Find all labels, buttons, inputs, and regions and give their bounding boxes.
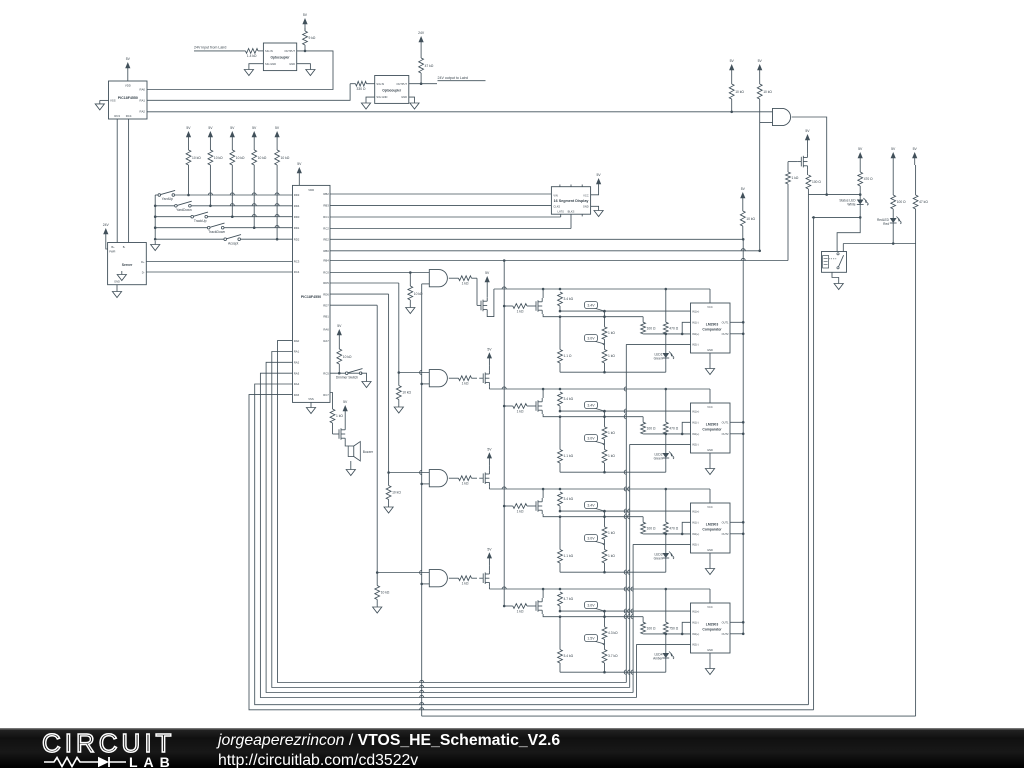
resistor R4 47 kOhm pull-up to 24V <box>418 31 434 83</box>
svg-text:VCC: VCC <box>707 405 713 409</box>
resistor R8 10 kOhm pull-up on RA2 line <box>729 59 744 113</box>
svg-text:GND: GND <box>707 548 713 552</box>
svg-text:LM2903: LM2903 <box>706 523 719 527</box>
comparator U7 LM2903 <box>691 403 731 453</box>
svg-text:Accept: Accept <box>228 241 238 245</box>
power 5V arrow for Q6 <box>805 129 810 153</box>
resistor R10 1 kOhm gate resistor <box>786 162 799 261</box>
resistor divider low block 2 <box>602 439 615 472</box>
power 5V arrow for Q4 <box>487 547 492 570</box>
wire bus riser to block 1 IN2- <box>624 344 626 682</box>
ground for comparator block 1 <box>705 353 714 375</box>
svg-text:3.4 kΩ: 3.4 kΩ <box>564 297 574 301</box>
CircuitLab logo <box>42 732 175 754</box>
resistor 1 kOhm input block 3 <box>513 504 532 514</box>
svg-text:IN2(-): IN2(-) <box>692 643 699 647</box>
resistor divider mid block 4 <box>602 611 618 639</box>
svg-text:330 Ω: 330 Ω <box>357 87 366 91</box>
svg-text:10 kΩ: 10 kΩ <box>402 391 411 395</box>
resistor 1 kOhm input block 4 <box>513 604 532 614</box>
svg-text:SIG IN: SIG IN <box>265 49 273 53</box>
wire block 4 top rail <box>489 587 710 603</box>
svg-text:3.4V: 3.4V <box>587 503 595 507</box>
wire opto U3 output to U1 RA0 <box>147 50 333 90</box>
LED block 4 <box>653 634 674 672</box>
resistor 1 kOhm channel 3 <box>449 476 477 486</box>
wire U1 RC4 to Server <box>128 119 130 243</box>
ground for comparator block 3 <box>705 553 714 575</box>
wire Server D+ to U2 RC3 <box>146 261 292 263</box>
svg-text:1 kΩ: 1 kΩ <box>608 431 615 435</box>
svg-text:5V: 5V <box>297 162 302 166</box>
svg-text:1 kΩ: 1 kΩ <box>608 454 615 458</box>
LED block 2 <box>654 434 675 472</box>
svg-text:CLKS: CLKS <box>553 205 560 209</box>
wire Q1 source to block rail <box>487 289 494 317</box>
svg-text:5V: 5V <box>252 126 257 130</box>
wire U2 pin riser to AND gate 3 input A <box>330 294 429 474</box>
svg-text:GND: GND <box>707 448 713 452</box>
wire block 4 IN2- row <box>637 643 691 645</box>
svg-text:10 kΩ: 10 kΩ <box>258 156 267 160</box>
svg-text:VCC: VCC <box>707 605 713 609</box>
ground for display GND <box>591 206 604 216</box>
wire block 4 input MOSFET connections <box>542 588 559 617</box>
node label 24V input from Laird <box>194 46 246 51</box>
ground for switch common rail <box>151 195 160 251</box>
svg-text:B+: B+ <box>111 245 115 249</box>
svg-text:Buzzer: Buzzer <box>363 450 374 454</box>
resistor R1 1.4 kOhm <box>246 49 264 59</box>
svg-text:RB2: RB2 <box>323 192 329 196</box>
AND gate driver channel 4 <box>429 570 447 587</box>
svg-text:1.1 Ω: 1.1 Ω <box>564 354 572 358</box>
switch SW6 Dimmer Switch <box>330 369 371 388</box>
svg-text:RD2: RD2 <box>294 237 300 241</box>
svg-text:47 kΩ: 47 kΩ <box>425 64 434 68</box>
svg-text:10 kΩ: 10 kΩ <box>192 156 201 160</box>
resistor shunt block 4 <box>558 617 574 673</box>
wire bus line 7 from common vertical <box>422 715 916 717</box>
wire block 2 node B <box>558 415 643 422</box>
wire bus riser to block 4 IN2- <box>636 644 638 697</box>
svg-text:RC3: RC3 <box>114 114 120 118</box>
wire U2 RC2 to display BLKS <box>330 214 571 228</box>
svg-text:IN2(-): IN2(-) <box>692 543 699 547</box>
resistor R11 100 Ohm <box>806 170 821 195</box>
svg-text:10 kΩ: 10 kΩ <box>281 156 290 160</box>
svg-text:RA6: RA6 <box>323 328 329 332</box>
wire comparator block 3 outputs <box>730 521 745 535</box>
svg-text:RB3: RB3 <box>323 204 329 208</box>
svg-text:OUT1: OUT1 <box>722 620 729 624</box>
wire comparator block 2 input row <box>504 405 513 407</box>
wire U2 RC7 to buzzer driver <box>330 393 333 410</box>
svg-text:RA4: RA4 <box>294 382 300 386</box>
svg-text:1.1 kΩ: 1.1 kΩ <box>564 554 574 558</box>
wire switch row Accept to U2 <box>154 238 225 241</box>
svg-text:TrackDown: TrackDown <box>208 230 225 234</box>
svg-text:10 kΩ: 10 kΩ <box>381 591 390 595</box>
transistor NMOS input block 2 <box>532 405 536 407</box>
svg-text:1 kΩ: 1 kΩ <box>608 354 615 358</box>
resistor 10 kOhm pulldown gate2 <box>394 373 411 414</box>
svg-text:4.3 kΩ: 4.3 kΩ <box>608 631 618 635</box>
svg-text:GND: GND <box>401 95 407 99</box>
svg-text:IN2(-): IN2(-) <box>692 343 699 347</box>
svg-text:470 Ω: 470 Ω <box>669 527 678 531</box>
svg-text:5V: 5V <box>487 547 492 551</box>
wire U2 RB0 to AND gate input <box>330 121 761 253</box>
svg-text:1 kΩ: 1 kΩ <box>462 482 469 486</box>
svg-text:24V output to Laird: 24V output to Laird <box>438 76 468 80</box>
wire comparator block 4 outputs <box>730 621 745 635</box>
svg-text:White: White <box>847 203 855 207</box>
svg-text:1 kΩ: 1 kΩ <box>517 409 524 413</box>
wire bus line 1 from U2 RA pin <box>278 341 627 683</box>
transistor NMOS input block 1 <box>532 305 536 307</box>
svg-text:VSS: VSS <box>308 397 314 401</box>
wire bus line 2 from U2 RA pin <box>272 352 630 688</box>
svg-text:470 Ω: 470 Ω <box>864 177 873 181</box>
svg-text:RC2: RC2 <box>323 227 329 231</box>
resistor divider low block 1 <box>602 339 615 372</box>
svg-text:5V: 5V <box>597 173 602 177</box>
svg-text:RC4: RC4 <box>126 114 132 118</box>
svg-text:RC3: RC3 <box>294 260 300 264</box>
wire block 3 bottom rail <box>560 571 666 574</box>
svg-text:1.4 kΩ: 1.4 kΩ <box>247 54 257 58</box>
svg-text:100 Ω: 100 Ω <box>897 200 906 204</box>
voltage probe block 4 lower <box>594 641 605 644</box>
svg-text:1 kΩ: 1 kΩ <box>792 176 799 180</box>
wire bus riser to block 2 IN2- <box>628 444 630 687</box>
transistor NMOS input block 3 <box>532 505 536 507</box>
microcontroller U1 PIC18F4550 <box>109 81 148 119</box>
svg-text:5V: 5V <box>730 59 735 63</box>
wire comparator block 1 input row <box>504 305 513 307</box>
resistor 1 kOhm channel 4 <box>449 576 477 586</box>
resistor R5 10 kOhm dimmer pull-up <box>337 324 352 373</box>
node label 24V output to Laird <box>409 76 486 85</box>
svg-text:RD6: RD6 <box>323 292 329 296</box>
svg-text:47 kΩ: 47 kΩ <box>919 200 928 204</box>
svg-text:1.1 kΩ: 1.1 kΩ <box>564 454 574 458</box>
resistor R12 470 Ohm <box>858 165 873 195</box>
wire block 3 IN1- stub <box>681 522 691 535</box>
power 5V arrow for switch pull-up 2 <box>209 136 211 144</box>
svg-text:5V: 5V <box>303 13 308 17</box>
svg-text:B-: B- <box>123 245 126 249</box>
svg-text:VDD: VDD <box>125 84 131 88</box>
svg-text:RD1: RD1 <box>294 226 300 230</box>
svg-text:VCC: VCC <box>707 505 713 509</box>
wire U2 RB2 to display VIN <box>330 193 551 195</box>
svg-text:IN2(+): IN2(+) <box>692 632 699 636</box>
svg-text:100 Ω: 100 Ω <box>647 527 656 531</box>
switch SW5 Accept <box>226 235 241 239</box>
svg-text:Amber: Amber <box>653 656 663 660</box>
svg-text:D-: D- <box>142 271 145 275</box>
resistor 1 kOhm channel 1 <box>449 276 477 286</box>
svg-text:VDD: VDD <box>308 188 314 192</box>
svg-text:RD0: RD0 <box>294 215 300 219</box>
svg-text:5V: 5V <box>485 271 490 275</box>
wire block 2 bottom rail <box>560 471 666 474</box>
svg-text:OUT2: OUT2 <box>722 432 729 436</box>
ground for U3 SIG GND <box>244 64 263 76</box>
wire common vertical to gate inputs B <box>420 284 430 716</box>
resistor 10 kOhm pulldown gate3 <box>384 473 401 514</box>
svg-text:Comparator: Comparator <box>702 528 722 532</box>
wire U2 RB3 to display CLKS <box>330 204 551 206</box>
transistor Q2 NMOS channel 2 <box>479 377 483 379</box>
voltage probe block 2 lower <box>594 441 605 444</box>
resistor top divider block 2 <box>558 392 574 411</box>
ground for Server GND <box>112 285 121 298</box>
voltage probe block 1 lower <box>594 341 605 344</box>
svg-text:RE2: RE2 <box>323 238 329 242</box>
svg-text:1 kΩ: 1 kΩ <box>462 582 469 586</box>
svg-text:10 kΩ: 10 kΩ <box>735 90 744 94</box>
svg-text:Green: Green <box>654 456 663 460</box>
svg-text:Green: Green <box>654 556 663 560</box>
wire node white LED anode <box>808 193 861 196</box>
wire long vertical distribution rail <box>503 261 506 608</box>
svg-text:GND: GND <box>707 648 713 652</box>
power 5V arrow for switch pull-up 3 <box>231 136 233 144</box>
svg-text:LATS: LATS <box>558 210 565 214</box>
wire block 1 top rail <box>494 287 710 303</box>
svg-text:Server: Server <box>122 263 133 267</box>
wire comparator block 1 outputs <box>730 321 745 335</box>
svg-text:SIG GND: SIG GND <box>376 95 387 99</box>
wire block 3 node A <box>559 510 691 513</box>
resistor R14 47 kOhm <box>913 165 928 244</box>
resistor 10 kOhm pull-up 5 <box>275 144 290 239</box>
svg-text:RA2: RA2 <box>140 110 146 114</box>
svg-text:OUTPUT: OUTPUT <box>396 82 407 86</box>
wire Q3 source to rail <box>488 486 490 489</box>
power 5V arrow for switch pull-up 1 <box>188 136 190 144</box>
svg-text:1 kΩ: 1 kΩ <box>608 331 615 335</box>
voltage probe block 2 upper <box>594 408 605 411</box>
wire Q2 source to rail <box>488 386 490 389</box>
svg-text:IN2(+): IN2(+) <box>692 332 699 336</box>
svg-text:100 Ω: 100 Ω <box>647 627 656 631</box>
power 5V arrow for buzzer driver <box>343 400 348 426</box>
svg-text:RC4: RC4 <box>294 270 300 274</box>
resistor 100 Ohm block 2 <box>641 422 656 434</box>
wire block 4 node B <box>558 615 643 622</box>
svg-text:5V: 5V <box>913 147 918 151</box>
wire switch row YardDown to U2 <box>154 205 176 208</box>
wire block 1 input MOSFET connections <box>542 288 559 317</box>
svg-text:RB1: RB1 <box>323 315 329 319</box>
svg-text:RA1: RA1 <box>294 350 300 354</box>
svg-text:SIG GND: SIG GND <box>265 62 276 66</box>
power 24V arrow for Server <box>103 223 110 249</box>
ground for U4 GND <box>409 97 419 109</box>
svg-text:BLKS: BLKS <box>568 210 575 214</box>
comparator U9 LM2903 <box>691 603 731 653</box>
ground for relay <box>832 272 843 289</box>
LED block 3 <box>654 534 675 572</box>
resistor 470 Ohm block 1 <box>663 289 678 334</box>
power 5V arrow for U1 VDD <box>125 57 130 81</box>
svg-text:VIN: VIN <box>553 193 557 197</box>
svg-text:3.4 kΩ: 3.4 kΩ <box>564 497 574 501</box>
svg-text:IN1(-): IN1(-) <box>692 620 699 624</box>
wire block 4 node C <box>643 633 690 636</box>
wire bus line 4 from U2 RA pin <box>260 373 636 697</box>
resistor R7 10 kOhm pull-up on RE2 line <box>740 187 755 240</box>
switch SW4 TrackDown <box>210 223 225 227</box>
resistor 10 kOhm pull-up 3 <box>230 144 245 217</box>
svg-text:RA7: RA7 <box>323 339 329 343</box>
title text <box>218 732 560 768</box>
svg-text:RB4: RB4 <box>323 259 329 263</box>
svg-text:RC0: RC0 <box>323 270 329 274</box>
svg-text:OUT2: OUT2 <box>722 332 729 336</box>
svg-text:3.0V: 3.0V <box>587 336 595 340</box>
resistor 1 kOhm input block 1 <box>513 304 532 314</box>
svg-text:RC5: RC5 <box>323 371 329 375</box>
wire block 2 top rail <box>489 387 710 403</box>
wire block 3 node B <box>558 515 643 522</box>
wire block 4 IN1- stub <box>681 622 691 635</box>
wire U1 RA1 to opto U4 input <box>147 84 350 101</box>
comparator U6 LM2903 <box>691 303 731 353</box>
wire relay row node <box>843 242 915 251</box>
svg-text:RD7: RD7 <box>323 303 329 307</box>
svg-text:D+: D+ <box>141 260 145 264</box>
svg-text:Comparator: Comparator <box>702 628 722 632</box>
svg-text:1 kΩ: 1 kΩ <box>462 382 469 386</box>
svg-text:1 kΩ: 1 kΩ <box>462 282 469 286</box>
wire bus line 6 from U2 RA pin <box>249 395 814 710</box>
resistor divider mid block 3 <box>602 511 615 539</box>
svg-text:PIC18F4550: PIC18F4550 <box>301 295 321 299</box>
resistor shunt block 2 <box>558 417 574 473</box>
resistor shunt block 1 <box>558 317 572 373</box>
svg-text:1 kΩ: 1 kΩ <box>517 509 524 513</box>
wire block 3 input MOSFET connections <box>542 488 559 517</box>
ground for comparator block 4 <box>705 653 714 675</box>
svg-text:YardUp: YardUp <box>162 197 173 201</box>
resistor 10 kOhm pull-up 1 <box>186 144 201 195</box>
ground for U4 SIG GND <box>361 97 374 109</box>
voltage probe block 3 lower <box>594 541 605 544</box>
svg-text:Optocoupler: Optocoupler <box>271 56 291 60</box>
ground for U1 VSS <box>95 100 108 110</box>
svg-text:4.7 kΩ: 4.7 kΩ <box>564 597 574 601</box>
optocoupler U3 <box>263 43 296 71</box>
voltage probe block 3 upper <box>594 508 605 511</box>
svg-text:RD3: RD3 <box>294 193 300 197</box>
switch SW2 YardDown <box>177 201 192 205</box>
wire U1 RA2 long line to AND gate input <box>147 111 773 113</box>
power 5V arrow for switch pull-up 4 <box>253 136 255 144</box>
wire AND gate U5 output <box>792 117 827 195</box>
svg-text:Green: Green <box>654 356 663 360</box>
microcontroller U2 PIC18F4550 <box>293 185 331 402</box>
svg-text:RA2: RA2 <box>294 361 300 365</box>
wire block 1 bottom rail <box>560 371 666 374</box>
svg-text:RA5: RA5 <box>294 393 300 397</box>
resistor 1 kOhm input block 2 <box>513 404 532 414</box>
comparator U8 LM2903 <box>691 503 731 553</box>
relay K1 <box>822 252 847 273</box>
svg-text:OUT1: OUT1 <box>722 520 729 524</box>
svg-text:RD5: RD5 <box>323 281 329 285</box>
transistor Q6 NMOS white LED driver <box>797 161 801 163</box>
wire block 1 node A <box>559 310 691 313</box>
wire U1 RC3 to Server <box>116 119 118 243</box>
wire U2 RB4 to driver gate resistor <box>330 258 788 261</box>
svg-text:SIG IN: SIG IN <box>376 82 384 86</box>
svg-text:100 Ω: 100 Ω <box>647 327 656 331</box>
svg-text:5V: 5V <box>741 187 746 191</box>
svg-text:10 kΩ: 10 kΩ <box>392 491 401 495</box>
svg-text:YardDown: YardDown <box>176 208 192 212</box>
LED D2 RedLED Red <box>877 217 902 245</box>
LED block 1 <box>654 334 675 372</box>
wire Q4 source to rail <box>488 586 490 589</box>
svg-text:OUTPUT: OUTPUT <box>284 49 295 53</box>
wire comparator block 4 input row <box>504 605 513 607</box>
resistor divider mid block 1 <box>602 311 615 339</box>
voltage probe block 4 upper <box>594 608 605 611</box>
svg-text:470 Ω: 470 Ω <box>669 327 678 331</box>
wire block 4 node A <box>559 610 691 613</box>
svg-text:IN1(+): IN1(+) <box>692 610 699 614</box>
buzzer LS1 <box>345 442 374 462</box>
svg-text:IN2(+): IN2(+) <box>692 532 699 536</box>
wire bus riser to block 3 IN2- <box>631 544 633 692</box>
svg-text:10 kΩ: 10 kΩ <box>746 217 755 221</box>
AND gate U5 <box>760 108 791 125</box>
svg-text:GND: GND <box>289 62 295 66</box>
resistor divider low block 4 <box>602 639 618 672</box>
svg-text:24V: 24V <box>418 31 425 35</box>
svg-text:1 kΩ: 1 kΩ <box>517 309 524 313</box>
svg-text:VCC: VCC <box>583 193 589 197</box>
power 5V arrow for white LED <box>859 157 861 165</box>
wire block 3 top rail <box>489 487 710 503</box>
svg-text:PWR: PWR <box>109 250 115 254</box>
wire block 2 IN1- stub <box>681 422 691 435</box>
resistor 470 Ohm block 4 <box>663 589 678 634</box>
svg-text:1 kΩ: 1 kΩ <box>608 531 615 535</box>
wire comparator block 2 outputs <box>730 421 745 435</box>
svg-text:RD4: RD4 <box>294 204 300 208</box>
wire switch row TrackDown to U2 <box>154 226 209 229</box>
resistor R2 9 kOhm pull-up on opto output <box>302 13 315 51</box>
svg-text:OUT2: OUT2 <box>722 532 729 536</box>
svg-text:5V: 5V <box>208 126 213 130</box>
svg-text:3.4V: 3.4V <box>587 303 595 307</box>
wire vertical bus right segment A <box>807 195 809 705</box>
optocoupler U4 <box>375 76 409 104</box>
svg-text:Comparator: Comparator <box>702 428 722 432</box>
resistor 100 Ohm block 1 <box>641 322 656 334</box>
svg-text:VCC: VCC <box>707 305 713 309</box>
svg-text:1.5V: 1.5V <box>587 636 595 640</box>
svg-text:16 Segment Display: 16 Segment Display <box>554 199 590 203</box>
wire block 4 bottom rail <box>560 671 666 674</box>
resistor R15 10 kOhm pulldown gate1 <box>406 273 423 314</box>
